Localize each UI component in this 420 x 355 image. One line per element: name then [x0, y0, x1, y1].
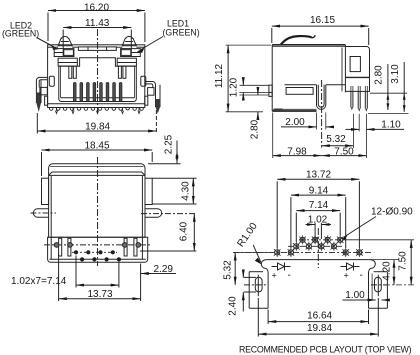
- svg-text:9.14: 9.14: [309, 185, 329, 196]
- label LED1 (GREEN): [137, 19, 200, 53]
- svg-text:(GREEN): (GREEN): [163, 28, 200, 38]
- svg-text:+: +: [272, 271, 277, 281]
- svg-text:7.50: 7.50: [397, 251, 408, 271]
- svg-text:2.25: 2.25: [164, 134, 175, 154]
- centerline front: [97, 29, 99, 116]
- svg-text:5.32: 5.32: [223, 260, 234, 280]
- svg-text:19.84: 19.84: [307, 323, 332, 334]
- dim 13.72: [277, 170, 359, 248]
- contacts 8x: [73, 83, 122, 102]
- label 12-dia0.90: [341, 207, 413, 240]
- svg-text:11.43: 11.43: [85, 18, 110, 29]
- dim 2.80 right: [368, 64, 409, 113]
- dim 1.02x7=7.14: [11, 256, 119, 288]
- svg-text:2.00: 2.00: [285, 117, 305, 128]
- dim 5.32 side: [322, 114, 354, 148]
- shield hole row centerline: [44, 244, 152, 246]
- dim 9.14: [291, 185, 346, 248]
- bottom scallops: [50, 108, 144, 114]
- LED2 window box: [54, 49, 74, 57]
- LED1 window box: [121, 49, 141, 57]
- shield slot left A: [59, 238, 62, 256]
- dim 13.73: [59, 254, 141, 302]
- dim 4.30: [152, 178, 196, 204]
- pin stubs above seat: [351, 86, 367, 91]
- LED2 lower bars: [69, 66, 77, 78]
- upper row link line: [72, 251, 117, 253]
- diode left: [272, 263, 291, 282]
- body outline front: [48, 45, 145, 108]
- svg-text:2.40: 2.40: [228, 296, 239, 316]
- hole shield S3: [342, 248, 349, 257]
- pin 3 side: [365, 91, 367, 111]
- hole P4 upper: [312, 235, 319, 244]
- svg-text:7.98: 7.98: [287, 147, 307, 158]
- side body outline: [272, 45, 345, 111]
- centerline top view: [97, 157, 99, 266]
- dim 18.45: [42, 140, 153, 176]
- shield slot right A: [124, 238, 127, 256]
- hole shield S2: [288, 248, 295, 257]
- pcb notch left R1.00: [261, 260, 268, 272]
- dim 1.10: [346, 114, 405, 132]
- hole P8 upper: [337, 235, 344, 244]
- diode right: [341, 263, 363, 282]
- hole P2 upper: [299, 235, 306, 244]
- dim 6.40: [140, 214, 196, 251]
- svg-text:6.40: 6.40: [179, 221, 190, 241]
- hole shield S1: [274, 248, 281, 257]
- ground hook right: [145, 82, 160, 114]
- dim 16.64: [268, 310, 368, 325]
- hole P3 lower: [306, 242, 313, 251]
- LED1 housing step: [117, 58, 136, 66]
- dim 19.84 front: [37, 110, 156, 134]
- pcb shield row centerline: [233, 251, 372, 253]
- svg-text:7.50: 7.50: [334, 147, 354, 158]
- side rail right: [141, 76, 146, 86]
- front panel tab side: [269, 85, 272, 96]
- left flange: [42, 178, 49, 204]
- svg-text:1.10: 1.10: [381, 119, 401, 130]
- LED1 light pipe dome: [122, 37, 136, 46]
- shield slot right B: [134, 238, 137, 256]
- svg-text:1.00: 1.00: [345, 290, 365, 301]
- svg-text:11.12: 11.12: [214, 63, 225, 88]
- right peg oval: [141, 209, 196, 218]
- svg-text:16.20: 16.20: [84, 2, 109, 13]
- pcb outline top edge: [267, 259, 370, 261]
- dim 4.20: [371, 260, 399, 285]
- dim 16.20: [48, 2, 145, 42]
- pcb upper row centerline: [299, 239, 344, 241]
- signal holes top view upper row: [74, 250, 115, 254]
- hole P6 upper: [324, 235, 331, 244]
- svg-text:13.72: 13.72: [306, 170, 331, 181]
- pcb lower row centerline: [288, 245, 342, 247]
- side cutout window: [286, 88, 313, 95]
- LED2 housing step: [58, 58, 77, 66]
- shield holes top view: [54, 243, 140, 248]
- dim 2.40: [228, 270, 244, 316]
- svg-text:-: -: [288, 270, 291, 281]
- pin 1 side: [351, 91, 353, 110]
- right flange: [145, 178, 152, 204]
- hole shield S4: [356, 248, 363, 257]
- dim 11.43: [63, 18, 131, 56]
- dim 1.02: [306, 215, 332, 244]
- LED2 light pipe dome: [58, 37, 72, 46]
- dim 19.84 pcb: [258, 298, 378, 337]
- hole P1 lower: [293, 242, 300, 251]
- svg-text:19.84: 19.84: [85, 121, 110, 132]
- svg-text:(GREEN): (GREEN): [2, 29, 39, 39]
- svg-text:7.14: 7.14: [309, 200, 329, 211]
- right lower side tab: [145, 96, 148, 105]
- dim 2.00: [281, 113, 332, 130]
- svg-text:3.10: 3.10: [390, 64, 401, 84]
- side rail left: [49, 76, 54, 86]
- dim 7.14 pcb: [296, 200, 340, 242]
- dim 2.25: [148, 134, 181, 163]
- svg-text:4.20: 4.20: [381, 261, 392, 281]
- svg-text:18.45: 18.45: [84, 140, 109, 151]
- pin 2 side: [358, 91, 360, 111]
- left lower side tab: [45, 96, 48, 105]
- plug opening: [59, 58, 137, 102]
- svg-text:2.29: 2.29: [154, 264, 174, 275]
- svg-text:+: +: [344, 271, 349, 281]
- dim 7.50 pcb: [343, 240, 415, 285]
- pcb centerline vertical: [317, 228, 319, 268]
- svg-text:1.02: 1.02: [308, 215, 328, 226]
- signal holes top view lower row: [80, 257, 121, 261]
- dim 3.10: [390, 62, 406, 112]
- dim 16.15: [272, 15, 369, 45]
- left peg oval: [31, 209, 57, 218]
- top view body: [49, 164, 145, 259]
- svg-text:13.73: 13.73: [87, 289, 112, 300]
- hole P5 lower: [318, 242, 325, 251]
- hole P7 lower: [331, 242, 338, 251]
- foot side: [274, 109, 283, 112]
- svg-text:2.80: 2.80: [250, 119, 261, 139]
- LED1 lower bars: [118, 66, 126, 78]
- bottom block: [48, 237, 148, 262]
- dim 7.50 side: [322, 114, 367, 158]
- pcb left leg: [249, 272, 268, 309]
- label R1.00: [235, 221, 261, 265]
- dim 11.12: [214, 45, 271, 112]
- dim 7.98: [273, 113, 322, 159]
- dim 1.00: [343, 274, 388, 301]
- dim 5.32 pcb: [223, 252, 273, 285]
- label LED2 (GREEN): [2, 21, 59, 50]
- svg-text:2.80: 2.80: [374, 65, 385, 85]
- latch spring: [281, 35, 316, 44]
- dim 1.20: [228, 77, 269, 100]
- svg-text:-: -: [360, 270, 363, 281]
- dim 2.29: [141, 264, 176, 275]
- top center tab: [78, 47, 116, 51]
- mounting peg side: [317, 80, 326, 148]
- pcb right leg: [369, 272, 388, 309]
- svg-text:16.15: 16.15: [310, 15, 335, 26]
- dim 2.80 left: [240, 88, 269, 140]
- shield slot left B: [68, 238, 71, 256]
- ground hook left: [36, 77, 47, 112]
- pcb notch right: [369, 260, 376, 272]
- svg-text:16.64: 16.64: [307, 310, 332, 321]
- svg-text:12-Ø0.90: 12-Ø0.90: [371, 207, 413, 218]
- rear block: [342, 47, 370, 92]
- svg-text:RECOMMENDED PCB LAYOUT (TOP VI: RECOMMENDED PCB LAYOUT (TOP VIEW): [239, 345, 412, 355]
- svg-text:5.32: 5.32: [326, 134, 346, 145]
- svg-text:R1.00: R1.00: [235, 221, 260, 250]
- svg-text:1.20: 1.20: [228, 77, 239, 97]
- right slot: [371, 275, 388, 297]
- left slot: [244, 275, 267, 297]
- svg-text:4.30: 4.30: [180, 181, 191, 201]
